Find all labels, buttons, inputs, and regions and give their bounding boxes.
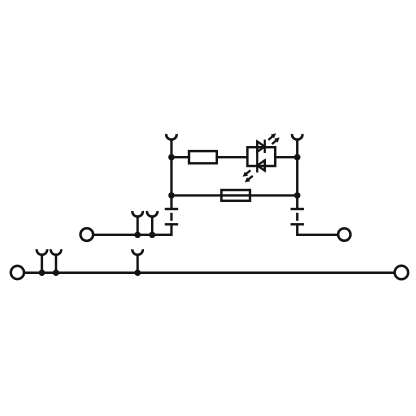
clamp contact fork (middle wire, second)	[147, 211, 157, 235]
terminal circle X2 (middle left)	[80, 228, 93, 241]
disconnect plug point (right): upper T-bar	[291, 208, 304, 210]
LED D2 anode bar	[264, 160, 266, 171]
fuse F1	[221, 190, 250, 201]
junction dot (middle wire, first fork)	[134, 232, 140, 238]
terminal circle X1 (bottom left)	[11, 266, 24, 279]
LED D2 triangle (points left)	[257, 160, 265, 170]
wire right vertical riser	[296, 139, 298, 209]
LED D1 cathode bar	[264, 140, 266, 153]
terminal circle X3 (middle right)	[338, 228, 350, 240]
wire top: node A to resistor	[171, 156, 189, 158]
junction dot node B (right, top wire)	[294, 154, 300, 160]
junction dot node D (right, fuse wire)	[294, 192, 300, 198]
LED D1 emission arrow 1	[268, 133, 276, 140]
LED D2 emission arrow 2	[245, 176, 253, 183]
clamp contact fork (bottom wire, first)	[37, 249, 47, 273]
disconnect plug point (left): dashed link	[170, 213, 172, 221]
wire left vertical riser	[170, 139, 172, 209]
LED block body	[247, 147, 275, 166]
disconnect plug point (left): lower T-bar	[165, 223, 178, 225]
disconnect plug point (left): upper T-bar	[165, 208, 178, 210]
wire top: LED block to node B	[275, 156, 297, 158]
clamp contact fork (bottom wire, second)	[51, 249, 61, 273]
disconnect plug point (right): lower T-bar	[291, 223, 304, 225]
clamp contact fork (top left)	[166, 134, 176, 140]
resistor R1	[189, 151, 217, 163]
terminal circle X4 (bottom right)	[395, 266, 409, 280]
clamp contact fork (middle wire, first)	[132, 211, 142, 235]
wire bottom feed-through conductor	[25, 272, 394, 274]
junction dot node C (left, fuse wire)	[168, 192, 174, 198]
junction dot (bottom wire, second fork)	[53, 270, 59, 276]
disconnect plug point (right): dashed link	[296, 213, 298, 221]
wire middle-right conductor with corner	[297, 224, 338, 235]
junction dot (bottom wire, first fork)	[39, 270, 45, 276]
clamp contact fork (top right)	[292, 134, 302, 140]
LED D1 triangle (points right)	[257, 141, 265, 151]
wire fuse level: node C to node D	[171, 194, 297, 196]
LED D1 emission arrow 2	[272, 137, 280, 144]
clamp contact fork (bottom wire, middle)	[132, 249, 142, 273]
wire top: resistor to LED block	[217, 156, 248, 158]
wire middle-left conductor with corner up to disconnect	[94, 224, 172, 235]
LED D2 emission arrow 1	[243, 170, 251, 177]
junction dot (bottom wire, middle fork)	[134, 270, 140, 276]
LED D1 anode bar (shared vertical bar)	[256, 141, 258, 173]
junction dot node A (left, top wire)	[168, 154, 174, 160]
junction dot (middle wire, second fork)	[149, 232, 155, 238]
